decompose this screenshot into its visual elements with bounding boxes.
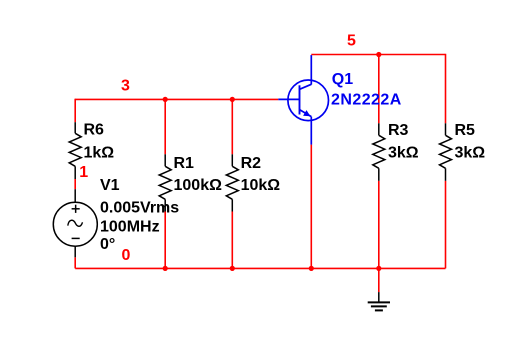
wire net 0 to ground [378, 268, 380, 292]
resistor R3 [373, 123, 385, 181]
wire R1 bottom to net 0 [164, 212, 166, 269]
source V1 [53, 189, 97, 257]
svg-text:10kΩ: 10kΩ [241, 177, 281, 194]
svg-text:0: 0 [122, 247, 131, 264]
wire net 3 left drop to R6 [74, 99, 76, 123]
svg-text:100kΩ: 100kΩ [174, 177, 223, 194]
resistor R2 [226, 154, 238, 211]
wire net 0 bottom horizontal rail [75, 267, 445, 269]
svg-text:V1: V1 [100, 177, 120, 194]
wire R2 bottom to net 0 [231, 212, 233, 269]
resistor R6 [69, 122, 81, 179]
junction net0/emitter [309, 266, 314, 271]
svg-text:0.005Vrms: 0.005Vrms [100, 199, 179, 216]
svg-text:1: 1 [79, 164, 88, 181]
junction net0/R1 [163, 266, 168, 271]
wire net 3 horizontal (base rail) [75, 98, 278, 100]
resistor R5 [440, 123, 452, 181]
wire net 5 to R3 top [378, 55, 380, 124]
wire net 1 segment between R6 and V1 [74, 179, 76, 189]
wire net 0 below V1 [74, 257, 76, 268]
svg-text:3: 3 [121, 78, 130, 95]
ground [368, 292, 390, 310]
svg-text:R6: R6 [84, 122, 105, 139]
svg-text:1kΩ: 1kΩ [84, 145, 115, 162]
wire net 5 to R5 top [445, 54, 447, 124]
junction net3/R2 [230, 97, 235, 102]
svg-text:R1: R1 [174, 155, 195, 172]
wire R5 bottom to net 0 [445, 181, 447, 269]
svg-text:2N2222A: 2N2222A [331, 91, 402, 108]
wire net 3 to R1 top [164, 99, 166, 154]
svg-text:100MHz: 100MHz [100, 219, 160, 236]
svg-text:3kΩ: 3kΩ [455, 145, 486, 162]
svg-text:R3: R3 [388, 122, 409, 139]
svg-text:3kΩ: 3kΩ [388, 145, 419, 162]
junction net0/R2 [230, 266, 235, 271]
svg-text:R2: R2 [241, 155, 262, 172]
svg-text:R5: R5 [455, 122, 476, 139]
svg-text:0°: 0° [100, 236, 115, 253]
wire Q1 emitter to net 0 [310, 145, 312, 269]
junction net0/ground [376, 266, 381, 271]
svg-text:Q1: Q1 [332, 71, 353, 88]
resistor R1 [159, 154, 171, 211]
junction net5/R3 [376, 52, 381, 57]
wire R3 bottom to net 0 [378, 181, 380, 269]
svg-text:5: 5 [347, 33, 356, 50]
wire net 5 top horizontal rail [311, 54, 445, 56]
transistor Q1 [278, 55, 328, 145]
junction net3/R1 [163, 97, 168, 102]
wire net 3 to R2 top [231, 99, 233, 154]
